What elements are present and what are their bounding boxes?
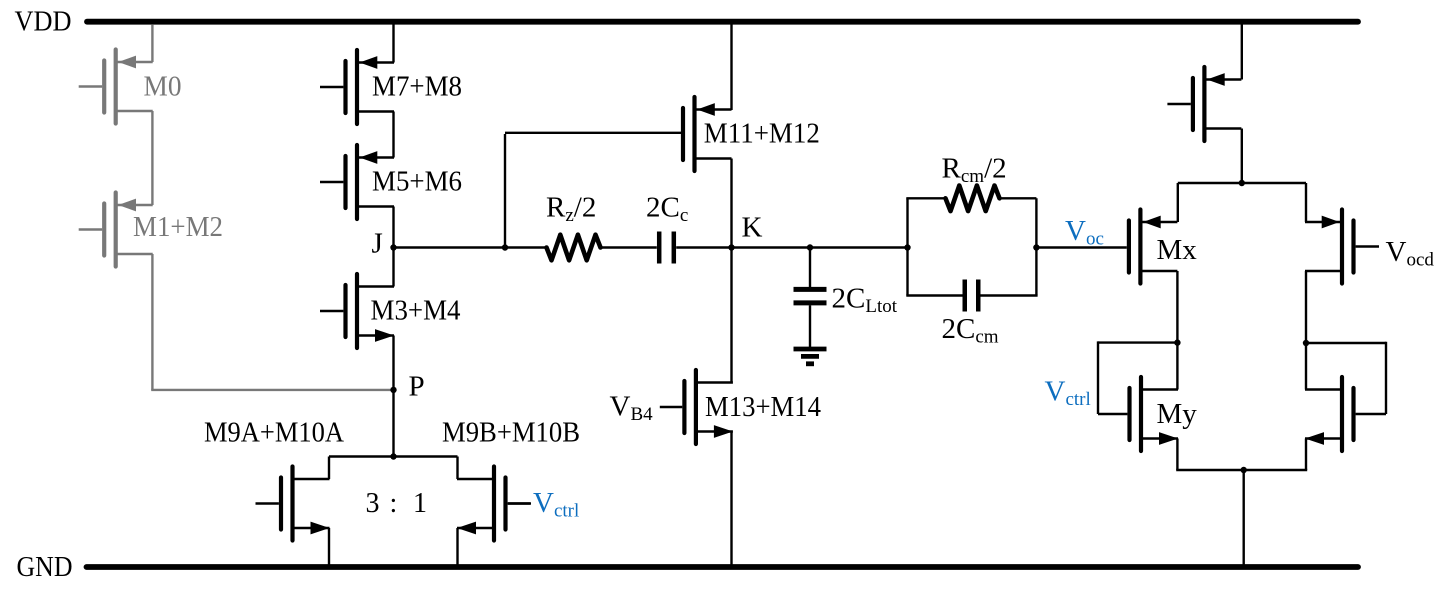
node common source dot (1241, 467, 1247, 473)
svg-text:P: P (409, 371, 425, 403)
transistor Vocd PMOS (mirrored) (1305, 210, 1379, 284)
wire M3+M4 source to node P and tail rail (392, 336, 394, 457)
wire tail rail (329, 455, 458, 457)
svg-text:M3+M4: M3+M4 (371, 296, 461, 327)
svg-text:VDD: VDD (15, 7, 72, 38)
svg-text:My: My (1157, 398, 1198, 430)
wire right gate loop top (1306, 342, 1386, 344)
node J dot (390, 244, 396, 250)
svg-text:Mx: Mx (1157, 234, 1198, 266)
svg-text:3: 3 (366, 488, 380, 519)
wire 2Cc to node K and beyond (676, 246, 907, 248)
wire M11+M12 drain to node K (730, 159, 732, 248)
wire M5+M6 drain to node J (392, 207, 394, 248)
svg-text:M11+M12: M11+M12 (704, 119, 820, 150)
transistor M1+M2 (gray PMOS) (79, 193, 153, 267)
wire Rz/2 to capacitor 2Cc (601, 246, 657, 248)
wire right gate loop bottom (1356, 413, 1386, 415)
svg-text:M9B+M10B: M9B+M10B (442, 418, 580, 449)
wire gray branch to node P (151, 389, 392, 391)
wire RC bottom right (981, 294, 1038, 296)
node right diode dot (1303, 340, 1309, 346)
wire M9B gate lead to Vctrl (508, 502, 530, 504)
wire Mx drain down to My (1176, 271, 1178, 390)
wire source rail of Mx pair (1178, 182, 1306, 184)
wire RC bottom left (906, 294, 962, 296)
transistor right NMOS (mirrored) (1305, 377, 1354, 451)
wire My source down (1176, 439, 1178, 471)
wire node K to M13+M14 drain (730, 248, 732, 383)
capacitor 2CLtot (794, 287, 827, 292)
svg-text:GND: GND (17, 552, 73, 583)
wire branch to M11+M12 gate (505, 132, 682, 134)
transistor M11+M12 (PMOS) (683, 97, 732, 171)
wire branch up from J wire (504, 134, 506, 248)
node P dot (390, 387, 396, 393)
wire M9A drain up (328, 457, 330, 480)
wire rail down to Mx source (1177, 183, 1179, 222)
wire My gate loop left (1097, 341, 1099, 414)
wire VDD to M0 source (gray) (151, 24, 153, 62)
wire J to resistor Rz/2 (394, 246, 547, 248)
node RC left dot (904, 244, 910, 250)
wire M7+M8 drain to M5+M6 source (392, 112, 394, 158)
wire tail PMOS drain down (1241, 129, 1243, 184)
transistor tail PMOS (top right) (1167, 67, 1241, 141)
wire right NMOS source down (1305, 439, 1307, 471)
svg-text:M13+M14: M13+M14 (705, 392, 821, 423)
node 2CLtot tap dot (807, 244, 813, 250)
resistor Rcm/2 (946, 186, 1000, 212)
wire M9A source to GND (328, 528, 330, 567)
transistor M13+M14 (NMOS) (684, 370, 733, 444)
power rail VDD (87, 19, 1358, 25)
transistor M9B+M10B (NMOS, mirrored) (457, 467, 531, 541)
wire VDD to M7+M8 source (392, 22, 394, 63)
svg-text::: : (390, 488, 398, 519)
wire Voc to Mx gate (1036, 246, 1126, 248)
wire M13+M14 source to GND (730, 432, 732, 568)
transistor M7+M8 (PMOS) (320, 50, 394, 124)
node tail rail dot (390, 453, 396, 459)
node K dot (728, 244, 734, 250)
capacitor 2Cc (657, 232, 662, 264)
wire rail down to Vocd PMOS source (1305, 183, 1307, 222)
svg-text:M1+M2: M1+M2 (133, 212, 223, 243)
transistor My (NMOS) (1130, 377, 1179, 451)
wire Vocd PMOS drain down (1305, 271, 1307, 390)
wire common source rail (1176, 469, 1307, 471)
transistor M5+M6 (PMOS) (320, 145, 394, 219)
svg-text:M7+M8: M7+M8 (372, 72, 462, 103)
transistor M0 (gray PMOS) (79, 50, 153, 124)
wire RC right vertical (1035, 198, 1037, 295)
ground rail GND (87, 564, 1359, 570)
wire VDD to M11+M12 source (730, 22, 732, 110)
wire RC left vertical (906, 198, 908, 295)
transistor Mx (PMOS) (1129, 210, 1178, 284)
wire common source to GND (1242, 470, 1244, 567)
wire M13+M14 gate lead (660, 406, 683, 408)
node tail dot (1239, 180, 1245, 186)
node My diode dot (1174, 339, 1180, 345)
wire M9B source to GND (456, 528, 458, 567)
svg-text:M9A+M10A: M9A+M10A (204, 418, 345, 449)
wire My gate loop top (1098, 341, 1177, 343)
resistor Rz/2 (547, 235, 601, 261)
ground symbol (794, 347, 827, 352)
wire RC top right (1000, 197, 1037, 199)
wire node J to M3+M4 drain (392, 248, 394, 287)
wire VDD to tail PMOS source (1241, 22, 1243, 80)
capacitor 2Ccm (963, 280, 968, 312)
wire 2CLtot to ground symbol (809, 305, 811, 347)
svg-text:M5+M6: M5+M6 (372, 167, 462, 198)
node J branch dot (502, 244, 508, 250)
wire tap to 2CLtot (809, 248, 811, 288)
wire M9B drain up (456, 457, 458, 480)
transistor M3+M4 (NMOS) (320, 274, 394, 348)
transistor M9A+M10A (NMOS) (256, 467, 330, 541)
svg-text:M0: M0 (144, 72, 182, 103)
svg-text:J: J (372, 228, 383, 260)
wire M0 drain to M1+M2 source (gray) (151, 111, 153, 205)
wire right gate loop right (1385, 342, 1387, 414)
svg-text:K: K (742, 212, 763, 244)
wire RC top left (906, 197, 945, 199)
wire My gate loop bottom (1098, 413, 1127, 415)
wire M1+M2 drain down (gray) (151, 254, 153, 390)
svg-text:1: 1 (413, 488, 427, 519)
node RC right dot (1033, 244, 1039, 250)
